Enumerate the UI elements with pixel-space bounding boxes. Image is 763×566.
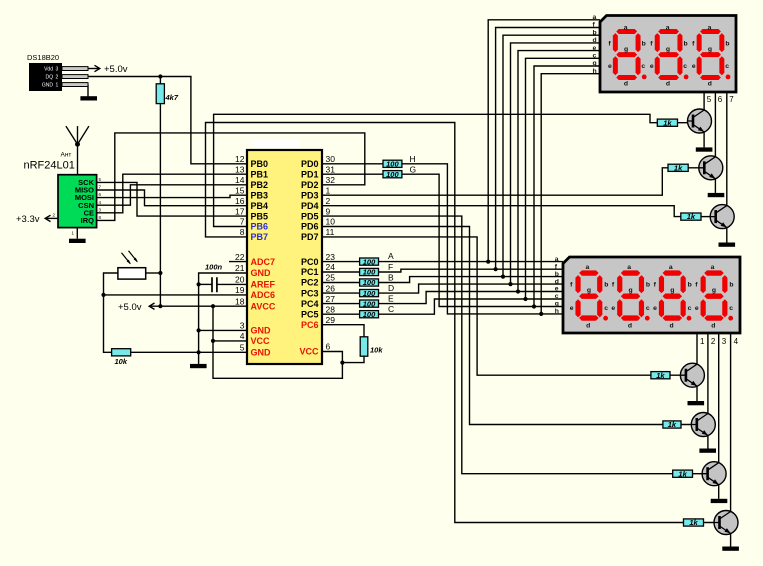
resistor 10k (reset pullup) <box>360 337 383 356</box>
svg-text:g: g <box>593 60 597 67</box>
svg-text:9: 9 <box>326 206 331 216</box>
svg-text:PB2: PB2 <box>251 180 269 190</box>
wire display2 pin 4 to Q7 collector <box>730 333 732 513</box>
wire PD5 pin 9 to R-Q6 base resistor <box>322 216 673 474</box>
wire Q2 emitter to ground <box>714 177 716 193</box>
wire display1 b input <box>503 35 600 276</box>
wire Q4 emitter to ground <box>696 385 698 401</box>
wire SCK to PB5 pin 17 <box>97 182 247 216</box>
wire +5.0v to AVCC pin 18 <box>150 305 248 307</box>
svg-text:29: 29 <box>326 315 336 325</box>
resistor 100 C <box>360 310 379 319</box>
digit DS2.3 <box>653 264 692 330</box>
svg-text:11: 11 <box>326 227 335 237</box>
junction VCC pin 4 <box>211 339 215 343</box>
svg-text:1k: 1k <box>689 518 698 527</box>
node +3.3v arrow <box>45 215 50 221</box>
svg-text:3: 3 <box>56 67 59 73</box>
svg-text:PD0: PD0 <box>301 159 319 169</box>
wire Q6 base <box>693 473 709 475</box>
svg-text:e: e <box>555 286 559 293</box>
svg-text:5: 5 <box>240 343 245 353</box>
svg-text:GND: GND <box>251 268 272 278</box>
svg-text:26: 26 <box>326 283 336 293</box>
junction LDR / 4k7 <box>158 271 162 275</box>
transistor Q4 <box>680 363 704 387</box>
svg-text:6: 6 <box>326 342 331 352</box>
svg-text:VCC: VCC <box>299 347 319 357</box>
svg-text:PD2: PD2 <box>301 180 319 190</box>
svg-text:C: C <box>388 304 394 314</box>
wire ADC6 pin 19 to LDR divider <box>104 294 248 296</box>
resistor 10k (LDR divider) <box>112 349 131 366</box>
svg-text:c: c <box>555 293 559 300</box>
resistor 100 E <box>360 299 379 308</box>
wire PD6 pin 10 to R-Q5 base resistor <box>322 227 663 425</box>
svg-text:PB7: PB7 <box>251 232 269 242</box>
junction net A / display1 a <box>486 260 490 264</box>
wire PC5 pin 28 to 100R C <box>322 313 360 315</box>
wire 100n right plate to AREF pin 20 <box>217 283 247 285</box>
svg-text:b: b <box>593 29 597 36</box>
wire display1 a input <box>488 20 600 262</box>
resistor 1k Q6 <box>673 469 693 478</box>
wire Q2 base <box>689 167 705 169</box>
wire Q3 emitter to ground <box>726 226 728 242</box>
wire net G segment to displays <box>402 174 564 306</box>
svg-text:18: 18 <box>235 296 245 306</box>
svg-text:4k7: 4k7 <box>165 93 179 102</box>
wire PD4 pin 2 to R-Q3 base resistor <box>322 206 681 217</box>
svg-text:PC3: PC3 <box>301 288 319 298</box>
svg-text:D: D <box>388 283 394 293</box>
node +5.0v arrow (DS18B20) <box>95 65 100 71</box>
wire IRQ to PD2 pin 32 <box>97 133 365 221</box>
svg-text:19: 19 <box>235 285 245 295</box>
svg-text:DS18B20: DS18B20 <box>27 53 59 62</box>
junction net B / display1 b <box>501 275 505 279</box>
svg-text:g: g <box>555 301 559 308</box>
svg-text:PD4: PD4 <box>301 201 319 211</box>
wire Q1 emitter to ground <box>703 131 705 148</box>
resistor 100 B <box>360 278 379 287</box>
wire net D segment d <box>379 284 564 293</box>
svg-text:F: F <box>388 262 393 272</box>
svg-text:1k: 1k <box>668 420 677 429</box>
svg-text:1k: 1k <box>674 163 683 172</box>
resistor 1k Q4 <box>651 371 670 380</box>
resistor 1k Q7 <box>684 518 704 527</box>
svg-text:e: e <box>593 45 597 52</box>
photoresistor LDR <box>118 251 146 279</box>
junction 100n / ground net <box>197 282 201 286</box>
svg-text:5: 5 <box>707 95 712 104</box>
wire GND pin 3 <box>199 329 247 331</box>
ground (DS18B20) <box>80 96 97 100</box>
svg-text:14: 14 <box>235 175 245 185</box>
svg-text:IRQ: IRQ <box>81 216 95 225</box>
resistor 1k Q3 <box>681 212 701 221</box>
svg-text:PB5: PB5 <box>251 211 269 221</box>
svg-text:PC1: PC1 <box>301 267 319 277</box>
svg-text:a: a <box>555 256 559 263</box>
junction net G / display1 g <box>532 304 536 308</box>
svg-text:23: 23 <box>326 252 336 262</box>
wire PC1 pin 24 to 100R F <box>322 271 360 273</box>
svg-text:100n: 100n <box>205 263 223 272</box>
wire display1 g input <box>534 66 600 307</box>
svg-text:E: E <box>388 293 394 303</box>
ground (Q3) <box>719 243 736 247</box>
svg-text:7: 7 <box>240 217 245 227</box>
svg-text:A: A <box>388 251 394 261</box>
ground (Q5) <box>699 449 716 453</box>
resistor 1k Q5 <box>663 420 681 429</box>
transistor Q1 <box>688 109 712 133</box>
svg-text:+5.0v: +5.0v <box>104 64 128 75</box>
digit DS2.4 <box>695 264 734 330</box>
svg-text:PB1: PB1 <box>251 169 269 179</box>
junction DQ/4k7 <box>158 74 162 78</box>
svg-text:15: 15 <box>235 185 245 195</box>
wire Q6 emitter to ground <box>718 483 720 499</box>
svg-text:GND: GND <box>251 326 272 336</box>
digit DS2.2 <box>611 264 650 330</box>
svg-text:Vdd: Vdd <box>44 67 53 73</box>
digit DS1.1 <box>608 25 647 88</box>
wire display1 e input <box>518 51 600 292</box>
junction net F / display1 f <box>494 267 498 271</box>
resistor 100 H <box>383 160 402 169</box>
ground (IC) <box>190 364 207 368</box>
svg-text:21: 21 <box>235 263 245 273</box>
svg-text:PB0: PB0 <box>251 159 269 169</box>
sensor DS18B20 <box>27 53 88 91</box>
svg-text:10: 10 <box>326 217 336 227</box>
digit DS2.1 <box>570 264 609 330</box>
svg-text:28: 28 <box>326 304 336 314</box>
wire 10k to GND pin 5 <box>131 351 247 353</box>
wire display1 c input <box>526 58 601 299</box>
wire 10k pullup bottom to VCC <box>342 356 364 362</box>
junction GND pin 3 <box>197 328 201 332</box>
svg-text:VCC: VCC <box>251 336 271 346</box>
svg-text:100: 100 <box>363 268 376 277</box>
svg-text:3: 3 <box>722 337 727 346</box>
wire CE to PB1 pin 13 <box>97 174 247 213</box>
svg-text:+5.0v: +5.0v <box>118 302 142 313</box>
svg-text:2: 2 <box>711 337 716 346</box>
svg-text:AREF: AREF <box>251 280 276 290</box>
wire PC6 pin 29 to 10k pullup <box>322 325 364 337</box>
svg-text:30: 30 <box>326 154 336 164</box>
wire net A segment a <box>379 261 564 263</box>
wire net E segment e <box>379 292 564 304</box>
svg-text:Ант: Ант <box>61 152 72 159</box>
svg-text:22: 22 <box>235 252 245 262</box>
svg-text:ADC6: ADC6 <box>251 290 276 300</box>
svg-text:1k: 1k <box>656 371 665 380</box>
wire DS18B20 DQ to PB0 pin 12 <box>88 77 247 164</box>
wire net B segment b <box>379 277 564 283</box>
junction net D / display1 d <box>508 282 512 286</box>
svg-text:PD3: PD3 <box>301 190 319 200</box>
wire DS18B20 GND to ground <box>87 85 89 97</box>
svg-text:4: 4 <box>734 337 739 346</box>
svg-text:PB4: PB4 <box>251 201 269 211</box>
wire Q4 base <box>670 374 686 376</box>
svg-text:+3.3v: +3.3v <box>16 214 40 225</box>
resistor 1k Q2 <box>668 163 688 172</box>
svg-text:2: 2 <box>326 196 331 206</box>
wire ADC7 pin 22 stub <box>229 261 247 263</box>
resistor 1k Q1 <box>657 118 677 127</box>
ground (Q7) <box>722 547 739 551</box>
svg-text:31: 31 <box>326 164 336 174</box>
svg-text:PC5: PC5 <box>301 309 319 319</box>
wire PD1 pin 31 to 100R G <box>322 173 383 175</box>
digit DS1.2 <box>650 25 689 88</box>
svg-text:1: 1 <box>56 83 59 89</box>
wire GND pin 21 to ground <box>199 273 247 364</box>
wire display1 pin 5 to Q1 collector <box>703 92 705 112</box>
svg-text:100: 100 <box>363 310 376 319</box>
wire Q3 base <box>701 216 716 218</box>
wire Q7 emitter to ground <box>730 532 732 546</box>
wire display2 pin 1 to Q4 collector <box>696 333 698 366</box>
display DS1 3-digit 7-segment <box>593 14 737 92</box>
transistor Q7 <box>714 511 738 535</box>
svg-text:25: 25 <box>326 273 336 283</box>
junction GND pin 5 / 10k <box>197 350 201 354</box>
transistor Q3 <box>710 205 734 229</box>
wire Q1 base <box>678 122 694 124</box>
ground (nRF24L01) <box>69 239 86 243</box>
junction net C / display1 c <box>523 297 527 301</box>
svg-text:24: 24 <box>326 262 336 272</box>
wire Q5 emitter to ground <box>707 434 709 448</box>
display DS2 4-digit 7-segment <box>555 256 740 333</box>
wire nRF24L01 GND pin 1 to ground <box>76 228 78 239</box>
ground (Q2) <box>708 193 725 197</box>
svg-text:1k: 1k <box>678 469 687 478</box>
svg-text:13: 13 <box>235 164 245 174</box>
antenna <box>66 126 89 175</box>
svg-text:100: 100 <box>363 299 376 308</box>
svg-text:H: H <box>410 154 416 164</box>
svg-text:10k: 10k <box>370 346 383 355</box>
transistor Q2 <box>699 156 723 180</box>
junction +5.0v / VCC branch <box>211 304 215 308</box>
wire 100n left plate to ground net <box>199 283 212 285</box>
wire 4k7 top <box>159 77 161 84</box>
wire DS18B20 Vdd to +5.0v <box>88 68 100 70</box>
wire net F segment f <box>379 269 564 272</box>
wire MOSI to PB3 pin 15 <box>97 195 247 197</box>
resistor 100 D <box>360 289 379 298</box>
wire CSN to PB2 pin 14 <box>97 185 247 205</box>
junction net H / display1 h <box>539 312 543 316</box>
svg-text:PD6: PD6 <box>301 222 319 232</box>
svg-text:d: d <box>593 37 597 44</box>
svg-text:PD5: PD5 <box>301 211 319 221</box>
svg-text:1k: 1k <box>687 212 696 221</box>
svg-text:nRF24L01: nRF24L01 <box>24 160 75 172</box>
transistor Q6 <box>702 462 726 486</box>
svg-text:GND: GND <box>251 348 272 358</box>
svg-text:2: 2 <box>56 75 59 81</box>
svg-text:16: 16 <box>235 196 245 206</box>
wire LDR left to 10k <box>104 273 118 352</box>
svg-text:32: 32 <box>326 175 336 185</box>
wire display1 f input <box>496 28 600 270</box>
wire PD7 pin 11 to R-Q4 base resistor <box>322 237 651 375</box>
svg-text:d: d <box>555 278 559 285</box>
svg-text:6: 6 <box>718 95 723 104</box>
svg-text:100: 100 <box>386 170 399 179</box>
wire PB6 pin 7 to R-Q1 base resistor <box>214 114 658 226</box>
svg-text:PB6: PB6 <box>251 222 269 232</box>
svg-text:20: 20 <box>235 275 245 285</box>
svg-text:12: 12 <box>235 154 245 164</box>
svg-text:8: 8 <box>240 227 245 237</box>
svg-text:PC6: PC6 <box>301 320 319 330</box>
svg-text:100: 100 <box>363 278 376 287</box>
node +5.0v arrow (AVCC) <box>149 303 154 309</box>
digit DS1.3 <box>692 25 731 88</box>
resistor 100 A <box>360 257 379 266</box>
svg-text:10k: 10k <box>115 357 128 366</box>
wire Q5 base <box>681 424 697 426</box>
wire PB7 pin 8 to R-Q7 base resistor <box>206 123 684 523</box>
svg-text:1: 1 <box>700 337 705 346</box>
transistor Q5 <box>691 413 715 437</box>
ic U1 ATmega8 <box>235 140 335 365</box>
svg-text:DQ: DQ <box>46 75 54 81</box>
resistor 100 F <box>360 268 379 277</box>
svg-text:100: 100 <box>386 160 399 169</box>
wire PC2 pin 25 to 100R B <box>322 282 360 284</box>
svg-text:4: 4 <box>240 331 245 341</box>
wire display1 pin 6 to Q2 collector <box>714 92 716 158</box>
svg-text:PD1: PD1 <box>301 169 319 179</box>
svg-text:PB3: PB3 <box>251 190 269 200</box>
resistor 100 G <box>383 170 402 179</box>
wire display1 h input <box>541 74 600 314</box>
wire net C segment c <box>379 299 564 314</box>
svg-text:PC0: PC0 <box>301 257 319 267</box>
wire display2 pin 2 to Q5 collector <box>707 333 709 415</box>
wire PC4 pin 27 to 100R E <box>322 303 360 305</box>
svg-text:AVCC: AVCC <box>251 301 276 311</box>
svg-text:B: B <box>388 272 394 282</box>
svg-text:PC4: PC4 <box>301 299 319 309</box>
svg-text:a: a <box>593 14 597 21</box>
svg-text:b: b <box>555 271 559 278</box>
svg-text:PC2: PC2 <box>301 278 319 288</box>
svg-text:100: 100 <box>363 257 376 266</box>
module nRF24L01 <box>24 160 102 236</box>
wire PC0 pin 23 to 100R A <box>322 261 360 263</box>
junction net E / display1 e <box>516 289 520 293</box>
wire net H segment to displays <box>402 164 564 314</box>
wire VCC pin 6 to +5.0v node <box>213 306 342 378</box>
svg-text:h: h <box>555 308 559 315</box>
wire Q7 base <box>704 522 721 524</box>
wire VCC pin 4 <box>213 340 247 342</box>
capacitor 100n <box>205 263 223 293</box>
wire 4k7 bottom to +5.0v node <box>159 104 161 307</box>
svg-text:h: h <box>593 68 597 75</box>
wire PD0 pin 30 to 100R H <box>322 163 383 165</box>
wire display1 pin 7 to Q3 collector <box>726 92 728 207</box>
svg-text:1k: 1k <box>663 118 672 127</box>
junction LDR / ADC6 <box>101 293 105 297</box>
svg-text:ADC7: ADC7 <box>251 257 276 267</box>
svg-text:3: 3 <box>240 321 245 331</box>
ground (Q4) <box>688 401 705 405</box>
svg-text:1: 1 <box>326 185 331 195</box>
svg-text:100: 100 <box>363 289 376 298</box>
junction 10k pullup / VCC <box>340 361 344 365</box>
wire PC3 pin 26 to 100R D <box>322 292 360 294</box>
wire +3.3v to nRF24L01 VCC pin 2 <box>46 217 59 219</box>
ground (Q6) <box>711 499 728 503</box>
svg-text:PD7: PD7 <box>301 232 319 242</box>
wire MISO to PB4 pin 16 <box>97 190 247 206</box>
wire LDR right to 4k7 net <box>146 272 161 274</box>
svg-text:7: 7 <box>729 95 734 104</box>
resistor 4k7 <box>156 84 179 104</box>
svg-text:c: c <box>593 53 597 60</box>
svg-text:G: G <box>410 165 417 175</box>
svg-text:27: 27 <box>326 294 336 304</box>
wire PD3 pin 1 to R-Q2 base resistor <box>322 168 668 195</box>
ground (Q1) <box>696 147 713 151</box>
wire display1 d input <box>511 43 601 284</box>
wire display2 pin 3 to Q6 collector <box>718 333 720 464</box>
junction +5.0v / 4k7 <box>158 304 162 308</box>
svg-text:GND: GND <box>42 83 54 89</box>
svg-text:17: 17 <box>235 206 245 216</box>
